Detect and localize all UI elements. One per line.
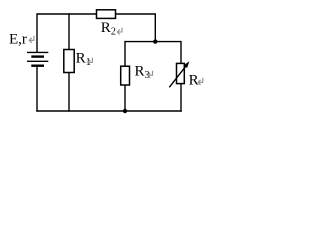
battery plate short (-) lower [31,64,44,66]
return mark after R1 [88,58,93,65]
wire: battery top lead [36,13,38,52]
wire: top rail left segment [37,13,97,15]
wire: top rail right segment [116,13,156,15]
battery plate short (-) upper [31,55,44,57]
battery plate long (+) lower [27,60,48,62]
resistor R3 [121,66,130,85]
resistor R2 (in top rail) [97,10,156,42]
wire: R3 bottom lead [124,85,126,112]
svg-text:R1: R1 [76,50,91,68]
resistor R1 branch [64,13,74,111]
battery E,r [27,13,182,111]
wire: R1 top lead [68,13,70,49]
wire: bottom rail [36,110,181,112]
wire: R3 top lead [124,41,126,66]
wire: R top lead [180,41,182,64]
svg-text:R2: R2 [101,20,116,38]
node junction dot (top) [153,39,157,43]
wire: node crossbar [125,41,181,43]
wire: R1 bottom lead [68,73,70,112]
svg-text:R3: R3 [135,63,150,81]
resistor R3 branch [121,41,130,112]
resistor R2 [97,10,116,19]
wire: R bottom lead [180,84,182,112]
rheostat R branch [169,41,186,112]
return mark after R3 [148,71,153,78]
return mark after E,r [29,36,34,43]
svg-text:R: R [189,73,199,89]
return mark after R [198,78,203,85]
rheostat arrow head [184,61,190,68]
node junction dot (bottom) [123,109,127,113]
return mark after R2 [117,28,122,35]
resistor R1 [64,50,74,73]
rheostat arrow shaft [169,66,186,87]
svg-text:E,r: E,r [9,31,27,47]
battery plate long (+) upper [27,51,48,53]
rheostat R body [177,63,185,83]
wire: battery bottom lead [36,66,38,112]
wire: right drop to node [154,13,156,41]
